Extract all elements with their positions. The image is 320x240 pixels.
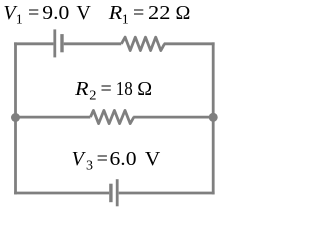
svg-text:R: R: [74, 78, 88, 100]
svg-text:1: 1: [16, 13, 23, 28]
node junction left: [11, 113, 20, 122]
node junction right: [209, 113, 218, 122]
svg-text:=: =: [133, 2, 144, 24]
battery V3 long plate: [116, 179, 119, 206]
wire top-left segment: [14, 42, 53, 45]
svg-text:3: 3: [86, 158, 93, 173]
svg-text:Ω: Ω: [176, 2, 191, 24]
wire middle-left segment: [14, 116, 90, 119]
svg-text:V: V: [145, 148, 161, 170]
battery V1 short plate: [60, 34, 63, 52]
svg-text:=: =: [101, 78, 112, 100]
wire top-middle segment: [64, 42, 122, 45]
wire left side: [14, 42, 17, 194]
svg-text:9.0: 9.0: [42, 2, 69, 24]
svg-text:R: R: [108, 2, 122, 24]
svg-text:=: =: [97, 148, 108, 170]
svg-text:22: 22: [148, 2, 170, 24]
svg-text:V: V: [72, 148, 87, 170]
label R1 = 22 ohm: [108, 2, 191, 28]
label V3 = 6.0 V: [72, 148, 161, 174]
label V1 = 9.0 V: [3, 2, 91, 28]
wire bottom-left segment: [14, 192, 109, 195]
svg-text:Ω: Ω: [137, 78, 152, 100]
resistor R2: [91, 110, 134, 123]
wire bottom-right segment: [119, 192, 215, 195]
resistor R1: [121, 37, 164, 50]
battery V3 short plate: [109, 184, 112, 203]
svg-text:V: V: [76, 2, 91, 24]
svg-text:2: 2: [89, 89, 96, 104]
battery V1 long plate: [53, 29, 56, 57]
wire right side: [212, 42, 215, 194]
svg-text:6.0: 6.0: [110, 148, 137, 170]
svg-text:18: 18: [116, 78, 133, 100]
label R2 = 18 ohm: [74, 78, 152, 104]
svg-text:=: =: [28, 2, 39, 24]
svg-text:1: 1: [122, 13, 129, 28]
wire middle-right segment: [133, 116, 214, 119]
wire top-right segment: [164, 42, 215, 45]
